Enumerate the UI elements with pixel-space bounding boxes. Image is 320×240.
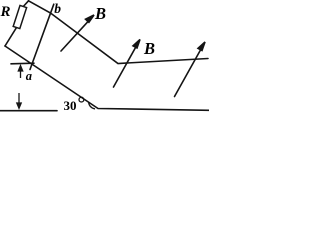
svg-text:30: 30 (64, 98, 77, 113)
svg-text:R: R (0, 4, 11, 20)
svg-text:B: B (143, 39, 155, 58)
svg-text:b: b (54, 1, 61, 16)
svg-text:B: B (94, 4, 106, 23)
svg-text:a: a (26, 69, 32, 83)
